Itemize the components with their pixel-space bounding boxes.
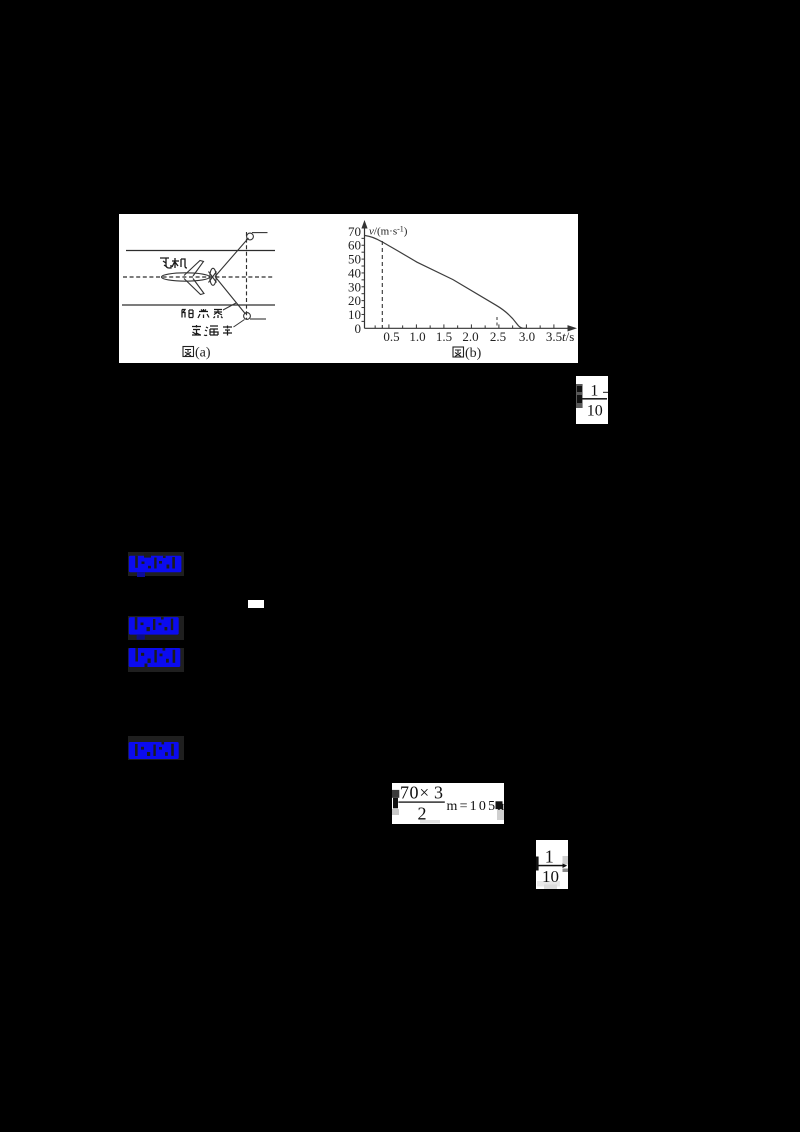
svg-text:10: 10 bbox=[587, 402, 603, 419]
svg-text:60: 60 bbox=[348, 238, 361, 253]
svg-text:1.0: 1.0 bbox=[409, 329, 425, 344]
svg-text:3.5: 3.5 bbox=[546, 329, 562, 344]
svg-text:30: 30 bbox=[348, 279, 361, 294]
svg-text:7: 7 bbox=[400, 783, 409, 803]
svg-text:×: × bbox=[420, 783, 430, 802]
svg-text:m=105m: m=105m bbox=[447, 799, 505, 814]
svg-text:0.5: 0.5 bbox=[383, 329, 399, 344]
svg-text:1: 1 bbox=[590, 382, 598, 399]
svg-text:2.5: 2.5 bbox=[490, 329, 506, 344]
svg-text:v/(m·s-1): v/(m·s-1) bbox=[369, 225, 408, 238]
svg-text:3.0: 3.0 bbox=[519, 329, 535, 344]
svg-text:2.0: 2.0 bbox=[462, 329, 478, 344]
svg-text:0: 0 bbox=[355, 321, 362, 336]
svg-text:10: 10 bbox=[348, 307, 361, 322]
svg-text:3: 3 bbox=[434, 783, 443, 803]
svg-text:20: 20 bbox=[348, 293, 361, 308]
svg-text:0: 0 bbox=[410, 783, 419, 803]
svg-text:1.5: 1.5 bbox=[436, 329, 452, 344]
svg-text:t/s: t/s bbox=[562, 329, 574, 344]
svg-text:1: 1 bbox=[545, 846, 554, 866]
svg-text:(a): (a) bbox=[195, 346, 211, 361]
svg-text:(b): (b) bbox=[465, 346, 482, 361]
svg-text:40: 40 bbox=[348, 265, 361, 280]
svg-text:70: 70 bbox=[348, 224, 361, 239]
svg-text:10: 10 bbox=[542, 867, 559, 886]
svg-text:50: 50 bbox=[348, 252, 361, 267]
